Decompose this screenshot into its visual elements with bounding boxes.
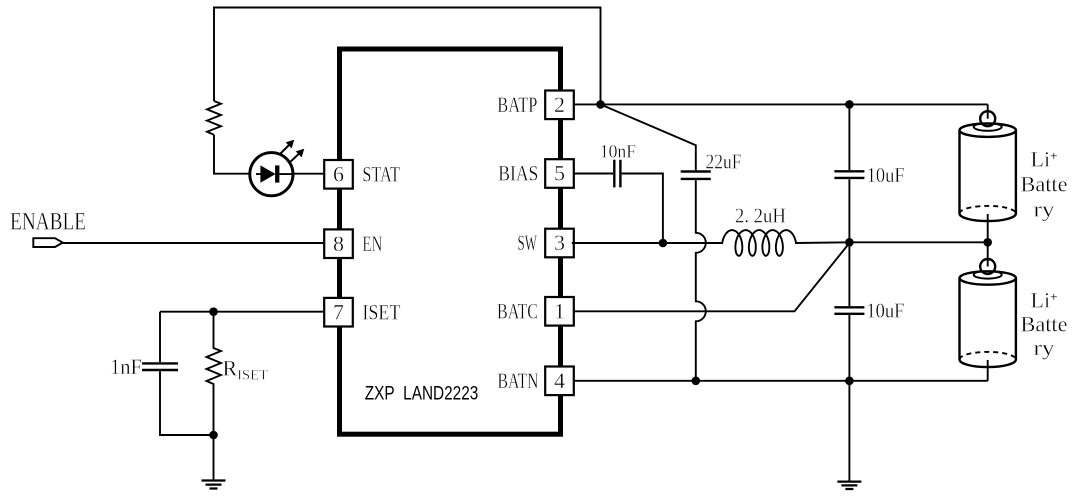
wire SW output node to battery stack midpoint [849,241,987,243]
svg-text:BATP: BATP [497,92,537,117]
svg-text:ZXP LAND2223: ZXP LAND2223 [365,383,479,404]
svg-text:RISET: RISET [223,356,268,384]
wire BATP pin 2 to output rail [574,103,988,105]
wire BATC pin 1 with diagonal to SW output node [574,243,850,311]
svg-text:22uF: 22uF [706,150,742,174]
wire BIAS pin 5 to 10nF [574,173,613,175]
svg-text:ENABLE: ENABLE [10,209,86,236]
pin 5 BIAS box [498,159,574,188]
capacitor C1 bottom lead [160,371,214,435]
svg-text:SW: SW [518,230,538,255]
battery BT2 Li+ bottom cell [960,242,1016,380]
svg-text:ry: ry [1034,335,1055,360]
pin 4 BATN box [498,367,574,396]
capacitor C5 10uF bottom plates [834,307,864,314]
node junction dot BIAS-SW [659,239,668,248]
wire to right ground [848,381,850,481]
node ENABLE input tag [10,209,86,248]
wire SW pin 3 to inductor [572,242,723,244]
svg-text:ISET: ISET [362,299,400,324]
wire 10uF rail vertical [848,104,850,380]
node junction dot battery midpoint [983,238,992,247]
svg-text:10uF: 10uF [866,299,904,323]
LED D1 status LED [250,141,304,196]
wire 10nF to SW node [622,174,663,244]
svg-text:STAT: STAT [362,161,400,186]
capacitor C2 22uF plates [681,172,711,179]
pin 3 SW box [518,229,574,258]
svg-text:5: 5 [554,161,565,186]
wire diagonal BATP node to 22uF [601,104,696,170]
svg-text:Li+: Li+ [1031,147,1058,172]
pin 8 EN box [324,229,382,258]
svg-text:10nF: 10nF [600,142,636,163]
ground right [837,482,861,489]
svg-text:BIAS: BIAS [498,161,538,186]
svg-text:ry: ry [1034,197,1055,222]
svg-text:6: 6 [333,161,344,186]
op-amp U1 IC body ZXP LAND2223 [340,49,561,434]
node junction dot BATP feedback [596,100,605,109]
ground left [202,481,226,489]
svg-text:2: 2 [554,92,565,117]
svg-text:Batte: Batte [1021,312,1068,337]
node junction dot BATN at 10uF rail [845,377,854,386]
inductor L1 2.2uH [705,230,850,256]
svg-text:BATN: BATN [498,368,539,393]
resistor R1 (LED series resistor) [207,101,221,135]
node junction dot SW output [845,238,854,247]
wire 22uF bottom with hops over SW and BATC, to BATN [696,180,706,381]
svg-text:1nF: 1nF [110,354,142,379]
battery BT1 Li+ top cell [960,104,1016,242]
svg-text:8: 8 [333,231,344,256]
resistor RISET [207,312,222,435]
svg-text:Batte: Batte [1021,172,1068,197]
svg-text:4: 4 [554,368,565,393]
capacitor C4 10uF top plates [834,171,864,178]
node junction dot BATP at 10uF rail [845,100,854,109]
svg-text:10uF: 10uF [867,163,905,187]
node junction dot 22uF at BATN [692,377,701,386]
wire ENABLE to pin 8 EN [63,242,325,244]
wire LED cathode to pin 6 STAT [293,173,324,175]
svg-text:BATC: BATC [497,298,538,323]
capacitor C1 1nF plates [142,363,178,370]
wire top feedback loop from STAT resistor to BATP node [214,8,601,105]
node junction dot ISET top [209,307,218,316]
svg-text:EN: EN [362,231,382,256]
pin 1 BATC box [497,297,574,326]
pin 6 STAT box [324,160,400,189]
wire ISET net from pin 7 to RC network [160,311,324,313]
svg-text:Li+: Li+ [1031,288,1058,313]
wire resistor bottom to LED anode [214,135,250,174]
wire to left ground [213,435,215,479]
svg-text:2. 2uH: 2. 2uH [735,204,786,228]
pin 7 ISET box [324,298,401,327]
wire BATN pin 4 to battery bottom [574,380,988,382]
capacitor C1 1nF left lead [159,312,161,363]
node junction dot ISET bottom [209,431,218,440]
capacitor C3 10nF plates [614,160,620,188]
pin 2 BATP box [497,91,574,120]
svg-text:1: 1 [554,298,565,323]
svg-text:3: 3 [554,230,565,255]
svg-text:7: 7 [333,299,344,324]
